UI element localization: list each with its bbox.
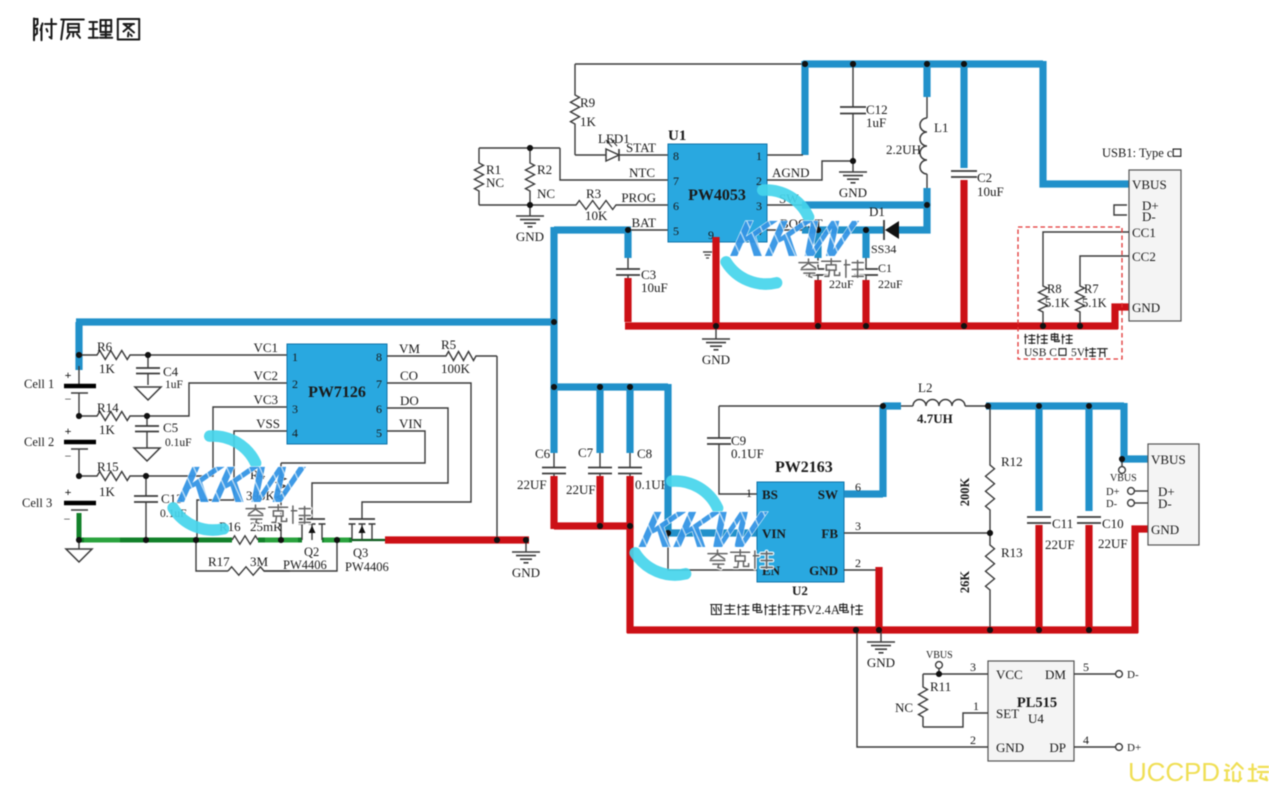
svg-text:22UF: 22UF: [517, 477, 547, 492]
wire SW blue: [767, 204, 804, 206]
svg-text:GND: GND: [809, 563, 838, 578]
node SW/L2: [880, 403, 886, 409]
svg-text:10uF: 10uF: [977, 184, 1004, 199]
dashed communication-resistor box: [1018, 227, 1122, 359]
svg-text:PW4053: PW4053: [688, 187, 746, 204]
transistor Q2 PW4406: [299, 518, 325, 520]
svg-text:5V: 5V: [1071, 347, 1086, 359]
node C4 tap: [145, 352, 151, 358]
svg-text:Q3: Q3: [353, 546, 368, 560]
wire VIN riser blue (U2): [664, 384, 671, 533]
wire STAT: [619, 154, 668, 156]
connector USB2 body: [1148, 444, 1199, 545]
svg-text:1K: 1K: [99, 484, 116, 499]
battery Cell 3: [64, 501, 96, 506]
node battery rail corner: [551, 319, 557, 325]
wire EN: [668, 533, 757, 570]
svg-text:+: +: [65, 485, 72, 499]
node bus1 junctions: [713, 323, 719, 329]
svg-text:22uF: 22uF: [829, 277, 854, 291]
svg-text:4: 4: [292, 426, 298, 440]
caption U2 chinese: [711, 605, 722, 615]
svg-text:C10: C10: [1102, 516, 1124, 531]
capacitor C5: [146, 416, 148, 426]
wire cap bank ground red: [554, 522, 633, 529]
capacitor C3: [624, 230, 631, 258]
junction dots overlay: [802, 61, 808, 67]
svg-text:R8: R8: [1047, 282, 1062, 296]
svg-text:1K: 1K: [580, 114, 597, 129]
wire VSS: [197, 431, 287, 540]
svg-text:C11: C11: [1052, 516, 1073, 531]
battery Cell 1: [75, 322, 82, 370]
wire VBUS power rail blue (top): [803, 60, 1043, 67]
svg-text:GND: GND: [1151, 522, 1179, 537]
svg-text:FB: FB: [821, 526, 838, 541]
watermark quark text 3: [708, 550, 727, 568]
svg-text:0.1uF: 0.1uF: [165, 437, 192, 449]
wire output VBUS rail blue: [986, 402, 1124, 409]
svg-text:2.2UH: 2.2UH: [886, 142, 921, 157]
wire AGND: [766, 179, 768, 181]
wire BOOST blue: [767, 229, 804, 231]
svg-text:PW2163: PW2163: [775, 459, 833, 476]
inductor L2: [883, 402, 901, 409]
resistor R14: [79, 412, 148, 421]
svg-text:3: 3: [292, 402, 298, 416]
svg-text:1uF: 1uF: [866, 115, 886, 130]
wire VC1: [148, 354, 287, 356]
svg-text:C4: C4: [163, 364, 179, 379]
ground GND (R1/R2): [529, 205, 531, 216]
wire GND (PL515): [857, 630, 988, 747]
wire top rail thin (R9 top to VIN riser): [575, 63, 806, 65]
capacitor C8: [626, 384, 633, 453]
capacitor C6: [550, 387, 557, 453]
node C12/AGND: [850, 158, 856, 164]
watermark KKW 3: [672, 481, 718, 508]
svg-text:VC3: VC3: [253, 392, 278, 407]
svg-text:1K: 1K: [99, 422, 116, 437]
svg-text:STAT: STAT: [626, 140, 656, 155]
node output rail: [985, 403, 991, 409]
svg-text:PROG: PROG: [621, 190, 656, 205]
ground GND (C12): [852, 161, 854, 172]
wire NTC net top rail: [479, 147, 560, 149]
svg-text:USB1: Type c: USB1: Type c: [1102, 146, 1173, 160]
resistor R15: [79, 472, 146, 481]
wire CC1: [1043, 232, 1129, 284]
svg-text:D+: D+: [1127, 742, 1141, 754]
svg-text:VCC: VCC: [996, 667, 1023, 682]
svg-text:AGND: AGND: [772, 165, 810, 180]
svg-text:6: 6: [673, 199, 679, 213]
resistor R2 (NC): [526, 148, 535, 205]
svg-text:1: 1: [756, 149, 762, 163]
svg-text:R15: R15: [97, 459, 119, 474]
wire BAT: [628, 229, 668, 231]
capacitor C7: [596, 384, 603, 453]
svg-text:D-: D-: [1106, 499, 1118, 510]
svg-text:R17: R17: [208, 554, 230, 569]
svg-text:DO: DO: [400, 393, 419, 408]
jumper D+/D- bracket: [1114, 205, 1127, 215]
capacitor C13: [145, 476, 147, 496]
capacitor C12: [852, 64, 854, 107]
pin D+ wire USB2: [1134, 490, 1148, 492]
pin D- wire USB2: [1134, 502, 1148, 504]
svg-text:C2: C2: [977, 170, 992, 185]
svg-text:3: 3: [970, 660, 976, 674]
svg-text:8: 8: [673, 149, 679, 163]
wire VC2: [147, 383, 287, 416]
node cap bank top: [551, 384, 557, 390]
svg-text:DP: DP: [1049, 740, 1066, 755]
wire U1 pin9 to ground red: [712, 237, 719, 326]
svg-text:SS34: SS34: [871, 242, 896, 256]
op-amp U3 PW7126 body: [287, 344, 387, 444]
svg-text:D1: D1: [869, 204, 885, 219]
svg-text:PW4406: PW4406: [345, 560, 389, 574]
svg-text:SW: SW: [818, 487, 838, 502]
svg-text:2: 2: [970, 733, 976, 747]
svg-text:R2: R2: [537, 162, 552, 177]
wire VCC (PL515): [923, 673, 988, 675]
node R5 gnd tap: [494, 537, 500, 543]
capacitor C2: [960, 61, 967, 168]
node boost cap tap: [815, 227, 821, 233]
wire rail red segment to GND: [385, 536, 529, 543]
wire U2 GND pin red: [844, 569, 878, 571]
svg-text:2: 2: [292, 377, 298, 391]
node L1 top: [924, 61, 930, 67]
svg-text:L2: L2: [918, 380, 932, 395]
svg-text:GND: GND: [839, 185, 867, 200]
wire ground bus 2 red: [627, 626, 1138, 633]
svg-text:+: +: [65, 424, 72, 438]
watermark swoosh 1: [763, 190, 809, 217]
resistor R13: [986, 533, 995, 630]
svg-text:CC1: CC1: [1132, 225, 1156, 240]
resistor R4: [277, 463, 286, 540]
svg-text:R14: R14: [97, 400, 119, 415]
wire VC3: [146, 407, 287, 476]
wire VM: [387, 355, 444, 357]
wire cell3 to ground green: [77, 513, 82, 540]
resistor R16 25mR (in rail): [232, 536, 258, 544]
resistor R7: [1076, 284, 1085, 326]
svg-text:200K: 200K: [958, 477, 972, 506]
wire DP (PL515): [1074, 746, 1115, 748]
resistor R1 (NC): [475, 148, 484, 205]
svg-text:1: 1: [746, 486, 752, 500]
node rail junctions: [143, 537, 149, 543]
wire DO: [312, 408, 448, 519]
transistor Q3 PW4406: [349, 518, 375, 520]
capacitor C1: [862, 227, 869, 258]
resistor R5: [444, 352, 497, 361]
capacitor C11: [1035, 403, 1042, 511]
watermark KKW 2: [210, 436, 256, 463]
node R2 bottom: [527, 202, 533, 208]
svg-text:GND: GND: [702, 352, 730, 367]
svg-text:5.1K: 5.1K: [1082, 296, 1107, 310]
svg-text:KKW: KKW: [726, 210, 862, 267]
svg-text:U2: U2: [792, 583, 808, 598]
svg-text:5: 5: [376, 426, 382, 440]
wire ground bus 1 red: [624, 278, 631, 322]
op-amp U4 PL515 body: [988, 661, 1074, 761]
resistor R11 (NC): [919, 674, 928, 727]
svg-text:6: 6: [855, 480, 861, 494]
node C1 tap: [863, 227, 869, 233]
node cap bank bottom: [597, 523, 603, 529]
svg-text:VC2: VC2: [253, 368, 278, 383]
resistor R8: [1039, 284, 1048, 326]
svg-text:C8: C8: [637, 446, 652, 461]
svg-text:5.1K: 5.1K: [1045, 296, 1070, 310]
svg-text:0.1UF: 0.1UF: [635, 477, 668, 492]
svg-text:CC2: CC2: [1132, 249, 1156, 264]
node C2 top: [961, 61, 967, 67]
svg-text:KKW: KKW: [173, 456, 309, 513]
node SW/L1/D1: [924, 202, 930, 208]
svg-text:7: 7: [673, 174, 679, 188]
svg-text:3: 3: [855, 519, 861, 533]
node VCC junction: [936, 671, 942, 677]
wire DM (PL515): [1074, 673, 1115, 675]
svg-text:R11: R11: [930, 679, 951, 694]
ground GND (rail): [525, 541, 527, 552]
svg-text:SET: SET: [996, 706, 1019, 721]
title text: [34, 19, 56, 41]
svg-text:KKW: KKW: [635, 501, 771, 558]
wire rail green bright segments: [84, 538, 120, 543]
svg-text:−: −: [65, 449, 72, 463]
ground GND (bus2): [880, 631, 882, 642]
svg-text:D-: D-: [1158, 496, 1172, 511]
pin VBUS stub (PL515): [938, 668, 940, 674]
svg-text:+: +: [65, 368, 72, 382]
svg-text:R12: R12: [1001, 454, 1023, 469]
svg-text:10uF: 10uF: [641, 280, 668, 295]
op-amp U1 PW4053 body: [668, 144, 767, 242]
svg-text:Cell 1: Cell 1: [24, 377, 54, 391]
wire pack-minus rail green: [79, 538, 232, 543]
svg-text:C7: C7: [578, 445, 594, 460]
svg-text:2: 2: [855, 556, 861, 570]
svg-text:PW7126: PW7126: [308, 384, 366, 401]
node VIN junction: [802, 61, 808, 67]
capacitor C10: [1085, 403, 1092, 511]
svg-text:D+: D+: [1106, 487, 1120, 498]
svg-text:8: 8: [376, 350, 382, 364]
wire FB: [844, 532, 990, 534]
svg-text:R3: R3: [586, 186, 601, 201]
battery Cell 2: [64, 440, 96, 445]
svg-text:1: 1: [292, 350, 298, 364]
svg-text:NC: NC: [486, 175, 504, 190]
LED LED1: [575, 154, 606, 156]
svg-text:VBUS: VBUS: [1132, 177, 1167, 192]
wire battery net riser blue (BAT to C6 rail): [550, 227, 557, 390]
wire battery rail blue (cap bank): [554, 383, 668, 390]
svg-text:VBUS: VBUS: [1151, 452, 1186, 467]
svg-text:5: 5: [673, 224, 679, 238]
wire VIN riser blue: [801, 61, 808, 155]
svg-text:22uF: 22uF: [878, 277, 903, 291]
svg-text:7: 7: [376, 377, 382, 391]
node bus2 junctions: [853, 627, 859, 633]
svg-text:C6: C6: [535, 446, 551, 461]
connector USB1 body: [1129, 170, 1181, 321]
svg-text:VIN: VIN: [762, 526, 786, 541]
svg-text:D-: D-: [1142, 209, 1156, 224]
wire BS top link: [719, 405, 883, 407]
svg-text:BAT: BAT: [631, 215, 656, 230]
svg-text:R9: R9: [580, 95, 595, 110]
svg-text:R13: R13: [1001, 545, 1023, 560]
wire VIN (PW7126): [281, 431, 425, 463]
op-amp U2 PW2163 body: [757, 482, 844, 582]
svg-text:PW4406: PW4406: [283, 558, 327, 572]
svg-text:R6: R6: [97, 339, 113, 354]
svg-text:USB C: USB C: [1024, 347, 1057, 359]
wire CO: [362, 383, 471, 519]
svg-text:VC1: VC1: [253, 340, 278, 355]
svg-text:5V2.4A: 5V2.4A: [800, 603, 840, 617]
ground triangle (battery minus): [78, 540, 80, 549]
svg-text:Cell 3: Cell 3: [22, 496, 52, 510]
node R2 top: [527, 145, 533, 151]
svg-text:VBUS: VBUS: [1110, 473, 1137, 484]
resistor R6: [79, 351, 148, 360]
svg-text:22UF: 22UF: [566, 482, 596, 497]
pin VBUS stub circle: [1121, 459, 1123, 467]
wire VIN pin stub: [767, 154, 803, 156]
svg-text:NC: NC: [895, 700, 913, 715]
svg-text:1uF: 1uF: [165, 379, 183, 391]
node C12 top: [850, 61, 856, 67]
svg-text:U4: U4: [1028, 711, 1044, 726]
svg-text:DM: DM: [1045, 667, 1066, 682]
wire battery net horizontal blue (to cells): [76, 318, 557, 325]
node C13 tap: [143, 473, 149, 479]
svg-text:L1: L1: [934, 120, 948, 135]
ground GND (bus1): [715, 328, 717, 339]
node C5 tap: [144, 413, 150, 419]
svg-text:Q2: Q2: [304, 545, 319, 559]
svg-text:−: −: [65, 392, 72, 406]
svg-text:3M: 3M: [250, 554, 269, 569]
svg-text:CO: CO: [400, 368, 418, 383]
svg-text:R5: R5: [441, 337, 456, 352]
wire SW blue (U2): [844, 490, 883, 497]
svg-text:5: 5: [1083, 660, 1089, 674]
svg-text:100K: 100K: [441, 361, 471, 376]
capacitor C13b 22uF (boost cap): [814, 227, 821, 258]
svg-text:C1: C1: [878, 261, 892, 275]
svg-text:NTC: NTC: [629, 165, 655, 180]
wire R5 to ground bus: [496, 356, 498, 540]
inductor L1: [923, 61, 930, 97]
svg-text:1: 1: [973, 699, 979, 713]
svg-text:VM: VM: [399, 341, 420, 356]
capacitor C4: [147, 355, 149, 368]
wire R1/R2 bottom rail: [479, 204, 530, 206]
node VIN/EN junction: [665, 530, 671, 536]
node BAT/C3: [625, 227, 631, 233]
svg-text:GND: GND: [516, 229, 544, 244]
svg-text:6: 6: [376, 402, 382, 416]
svg-text:4: 4: [1083, 733, 1089, 747]
svg-text:26K: 26K: [958, 571, 972, 594]
svg-text:D-: D-: [1127, 669, 1139, 681]
diode D1 SS34: [883, 220, 885, 240]
svg-text:Cell 2: Cell 2: [24, 435, 54, 449]
svg-text:1K: 1K: [99, 361, 116, 376]
resistor R9: [571, 64, 580, 155]
svg-text:4.7UH: 4.7UH: [917, 411, 953, 426]
node battery taps: [76, 352, 82, 358]
watermark quark text 2: [246, 505, 265, 523]
svg-text:−: −: [64, 512, 71, 526]
svg-text:U1: U1: [668, 128, 686, 144]
svg-text:C5: C5: [163, 420, 178, 435]
svg-text:10K: 10K: [585, 208, 608, 223]
svg-text:GND: GND: [867, 655, 895, 670]
svg-text:PL515: PL515: [1017, 695, 1057, 711]
svg-text:R7: R7: [1084, 282, 1099, 296]
svg-text:22UF: 22UF: [1045, 537, 1075, 552]
svg-text:NC: NC: [537, 186, 555, 201]
svg-text:VIN: VIN: [399, 416, 423, 431]
pad symbol pin9: [703, 251, 712, 253]
node FB junction: [987, 530, 993, 536]
svg-text:GND: GND: [1132, 300, 1160, 315]
svg-text:UCCPD: UCCPD: [1128, 757, 1220, 787]
svg-text:GND: GND: [996, 740, 1024, 755]
resistor R17 3M (bypass loop): [196, 540, 228, 571]
resistor R12: [986, 406, 995, 533]
watermark quark text 1: [799, 259, 818, 277]
svg-text:0.1UF: 0.1UF: [731, 446, 764, 461]
wire CC2: [1080, 256, 1129, 284]
svg-text:22UF: 22UF: [1098, 536, 1128, 551]
svg-text:VBUS: VBUS: [926, 650, 953, 661]
svg-text:GND: GND: [512, 565, 540, 580]
resistor R3: [530, 201, 668, 210]
svg-text:VSS: VSS: [256, 416, 280, 431]
capacitor C9: [718, 406, 720, 438]
